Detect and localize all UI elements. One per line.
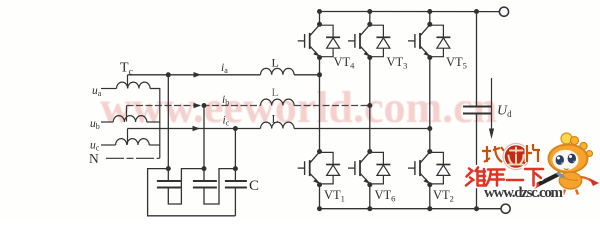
svg-text:www.dzsc.com: www.dzsc.com	[484, 185, 564, 201]
svg-text:L: L	[272, 56, 279, 70]
svg-text:L: L	[272, 85, 279, 99]
svg-text:N: N	[89, 151, 99, 166]
svg-text:L: L	[272, 112, 279, 126]
svg-text:C: C	[249, 178, 259, 194]
